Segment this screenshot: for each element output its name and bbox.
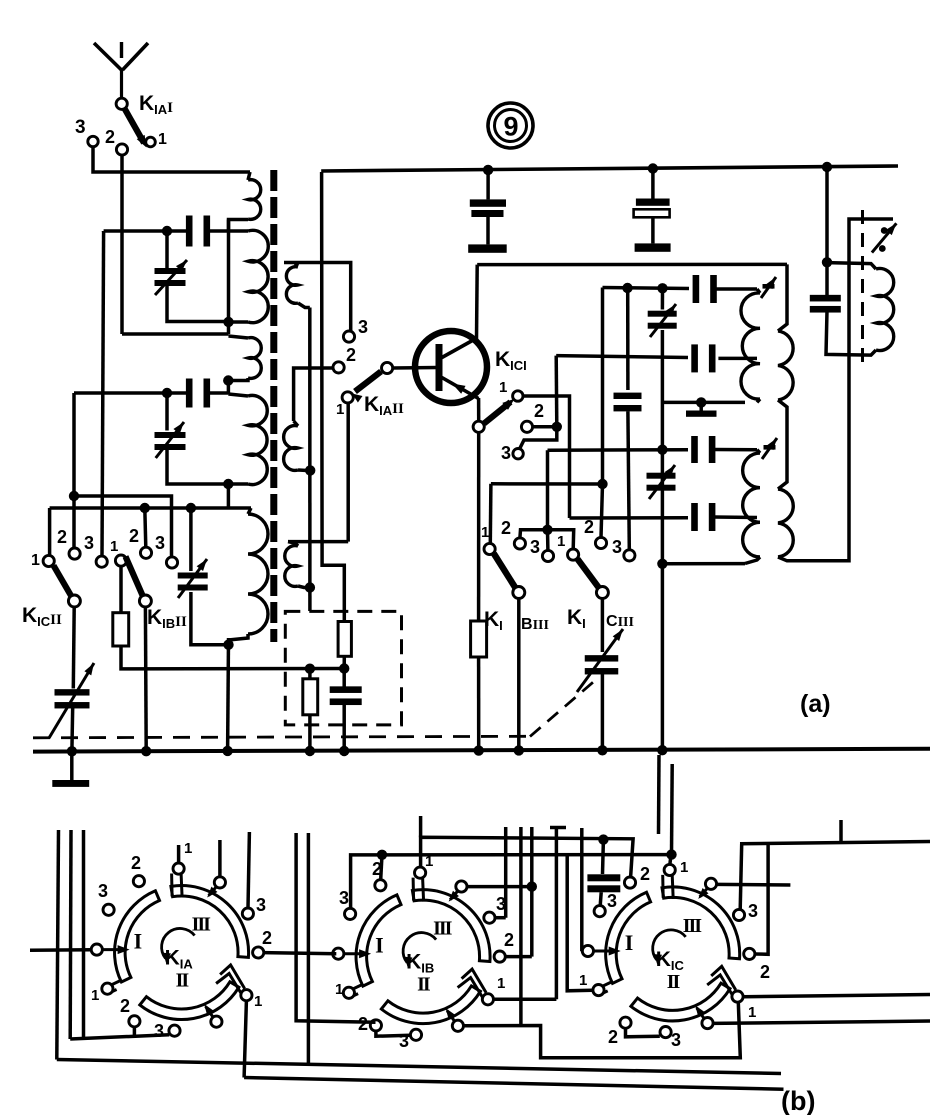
wire drop x308: [307, 833, 311, 1065]
svg-text:1: 1: [184, 840, 192, 857]
winding L2a: [286, 267, 298, 304]
rotary switch K1B wafer II: [381, 986, 480, 1024]
svg-text:III: III: [433, 918, 453, 940]
switch K1AI common contact: [116, 98, 127, 109]
switch K1CII contact 1: [43, 555, 54, 566]
wire V1 bottom: [167, 285, 229, 322]
node x602-y484: [597, 479, 607, 489]
K1A common contact: [91, 944, 102, 955]
svg-text:3: 3: [98, 881, 108, 901]
K1B contact 2 bottom: [370, 1020, 381, 1031]
rotary switch K1A wafer III: [171, 886, 249, 958]
wire K1BIII-2 up: [520, 530, 548, 538]
node C1-V1: [162, 226, 172, 236]
svg-text:2: 2: [608, 1027, 618, 1047]
switch K1CIII contact 3: [624, 550, 635, 561]
wire from y355 corner: [554, 356, 558, 427]
wire to K1BII-2: [145, 508, 146, 547]
K1B wafer III hook to top contact 1: [412, 878, 416, 901]
wire K1C 1lr to right: [743, 995, 930, 997]
node H2 K1B-2tl: [377, 850, 387, 860]
K1C contact 1 top: [664, 864, 675, 875]
wire L1e bottom: [226, 638, 230, 751]
label 9 in circle: [488, 103, 533, 148]
K1C contact 2 right: [744, 948, 755, 959]
winding L2c: [288, 542, 298, 546]
wire tank2 top tap: [548, 448, 689, 452]
wire C10 bottom: [826, 311, 876, 355]
bottom bus L2: [244, 1078, 783, 1090]
winding L3a: [757, 289, 760, 293]
svg-text:3: 3: [612, 537, 622, 557]
K1B contact 1 top: [415, 867, 426, 878]
K1B contact 3 top-left: [345, 908, 356, 919]
wire K1A 2r to K1B common: [264, 953, 336, 954]
capacitor C1: [186, 216, 193, 247]
svg-text:2: 2: [57, 527, 67, 547]
K1B wafer III wiper arrow circle: [456, 881, 467, 892]
wire V2 bottom: [167, 449, 228, 485]
svg-text:1: 1: [335, 981, 343, 998]
K1C common wiper arrow: [594, 950, 616, 953]
wire y496 across: [74, 496, 172, 557]
wire T1 primary link: [227, 220, 231, 335]
wire K1CIII common down: [601, 599, 605, 652]
K1C common contact: [582, 945, 593, 956]
K1A contact 2 top-left: [133, 876, 144, 887]
node K1B III arrow junction: [527, 881, 537, 891]
wire output tank top: [827, 263, 876, 269]
svg-text:9: 9: [503, 112, 518, 142]
node H2 K1C-1top: [666, 849, 676, 859]
svg-text:1: 1: [336, 401, 344, 418]
switch K1AI contact 1: [146, 137, 156, 147]
wire R1 bottom: [121, 646, 344, 669]
svg-text:(а): (а): [800, 690, 831, 718]
switch K1AI contact 3: [88, 136, 98, 146]
wire tank1 bottom: [662, 401, 745, 405]
K1A wafer II wiper arrow: [206, 1007, 213, 1017]
K1B contact 3 bottom: [410, 1029, 421, 1040]
wire L1c-L1d link: [227, 381, 231, 395]
wire K1CI-3 stair: [520, 427, 557, 449]
core L5: [861, 210, 864, 366]
wire collector bus y264: [477, 263, 787, 267]
winding L5 output: [876, 269, 894, 351]
node tap to K1BII-2: [140, 503, 150, 513]
svg-text:3: 3: [339, 888, 349, 908]
svg-text:3: 3: [155, 533, 165, 553]
svg-text:3: 3: [75, 117, 86, 138]
K1A wafer III wiper arrow: [209, 887, 217, 896]
K1C wafer III wiper arrow circle: [705, 878, 716, 889]
wire x658 drop: [657, 755, 661, 834]
switch K1CI wiper arm: [484, 402, 511, 424]
wire long vertical from rail: [322, 172, 345, 622]
rotary switch K1B wafer III: [412, 890, 490, 962]
bottom rail: [33, 749, 930, 752]
wire drop to K1A 3r: [248, 832, 249, 908]
wire output branch: [825, 167, 829, 262]
node V3 bottom tap: [223, 640, 233, 650]
K1A wafer II wiper arrow circle: [211, 1016, 222, 1027]
wire K1BIII-1 feed: [489, 484, 493, 544]
switch K1CI common: [473, 421, 484, 432]
switch K1BII common: [139, 595, 151, 607]
K1B contact 1 lower-right: [482, 994, 493, 1005]
resistor R2: [303, 679, 318, 715]
switch K1BII wiper arm: [126, 557, 144, 597]
capacitor C7: [691, 344, 698, 372]
top rail: [321, 166, 898, 171]
K1B wafer II wiper arrow circle: [452, 1020, 463, 1031]
wire V6 down: [601, 673, 605, 750]
svg-text:III: III: [192, 914, 212, 936]
K1A contact 3 top-left: [103, 904, 114, 915]
svg-text:3: 3: [748, 901, 758, 921]
node rail K1BII: [141, 746, 151, 756]
svg-text:1: 1: [499, 379, 507, 396]
wire drop x296: [296, 833, 375, 1022]
node rail R2: [305, 746, 315, 756]
variable capacitor V7: [55, 689, 90, 695]
svg-text:2: 2: [120, 996, 130, 1016]
svg-text:2: 2: [105, 127, 115, 147]
wire left bus 1: [57, 830, 59, 1060]
trimmer L3a: [763, 284, 775, 289]
svg-text:3: 3: [501, 443, 511, 463]
wire drop x567: [567, 855, 593, 991]
svg-text:1: 1: [158, 131, 167, 148]
resistor R3: [338, 622, 351, 657]
variable capacitor V3: [189, 508, 193, 571]
rotary switch K1C wafer III: [662, 887, 740, 959]
wire K1C 2r drop: [755, 844, 768, 955]
rotary switch K1A wafer I: [115, 891, 160, 982]
svg-text:CIII: CIII: [606, 613, 634, 630]
K1A wafer I hook to contact 1: [111, 980, 122, 985]
capacitor C10: [810, 295, 841, 302]
wire Cb bottom: [342, 705, 346, 751]
switch K1CIII wiper arm: [578, 559, 600, 588]
wire K1A 1top stub: [177, 845, 181, 863]
dashed box AGC filter: [285, 611, 401, 725]
switch K1BIII contact 3: [542, 550, 553, 561]
K1A contact 2 right: [253, 947, 264, 958]
winding L2b: [294, 421, 298, 426]
svg-text:1: 1: [31, 552, 40, 569]
node rail output: [822, 162, 832, 172]
wire K1AII-2 to L2b: [294, 368, 333, 421]
node y529 junction: [542, 525, 552, 535]
antenna: [94, 43, 122, 70]
wire C1 left: [104, 229, 189, 233]
node tank2 tap-V5: [657, 445, 667, 455]
svg-text:1: 1: [91, 987, 99, 1004]
wire C7 to coil: [718, 357, 757, 361]
capacitor C9: [691, 503, 698, 531]
node tank2 bottom: [657, 559, 667, 569]
wire L4b bottom to output: [778, 219, 893, 561]
wire C9 to coil: [714, 515, 757, 519]
K1C rotation arrow: [653, 930, 686, 960]
wire x602 vertical: [601, 288, 605, 485]
wire collector riser: [475, 265, 479, 339]
svg-text:1: 1: [557, 533, 565, 550]
svg-text:1: 1: [680, 859, 688, 876]
wire V7 to ground rail: [70, 707, 74, 752]
K1C contact 2 bottom: [620, 1017, 631, 1028]
chassis stub: [699, 402, 703, 411]
wire K1A 1lr to bus L2: [244, 1001, 246, 1078]
wire left bus 2: [68, 830, 72, 1039]
K1A contact 1 lower-right: [241, 990, 252, 1001]
svg-text:2: 2: [504, 930, 514, 950]
wire K1CII common down: [72, 607, 76, 689]
wire K1B 1top feed H1: [421, 837, 633, 877]
capacitor C6: [693, 275, 700, 303]
K1C contact 3 bottom: [660, 1027, 671, 1038]
wire contact3 to input bus: [93, 147, 250, 172]
wire secondary common: [308, 308, 312, 612]
resistor R1: [119, 566, 123, 613]
wire C3 down to K1CIII-3: [628, 411, 629, 550]
wire K1B 2r link: [505, 955, 531, 959]
K1A contact 1 top: [173, 863, 184, 874]
K1B common wiper arrow: [344, 952, 366, 955]
svg-text:1: 1: [497, 975, 505, 992]
rotary switch K1B wafer I: [356, 895, 401, 986]
K1B common contact: [333, 948, 344, 959]
wire K1BII common down: [144, 607, 148, 751]
wire T1 left column: [227, 484, 231, 508]
wire emitter to resistor: [477, 432, 481, 621]
K1C wafer III hook to top contact 1: [661, 875, 665, 898]
switch K1AII contact 1: [342, 392, 353, 403]
wire left bus 3: [82, 830, 86, 1039]
svg-text:2: 2: [584, 517, 594, 537]
switch K1CII wiper arm: [54, 566, 72, 597]
K1A wafer III hook to top contact 1: [170, 874, 174, 897]
svg-text:1: 1: [110, 538, 118, 555]
node winding L1b bottom: [223, 317, 233, 327]
node L1c bottom: [223, 375, 233, 385]
wire x602 to K1CIII-2: [601, 484, 603, 537]
svg-text:3: 3: [154, 1021, 164, 1041]
node rail K1CIII: [597, 745, 607, 755]
wire K1AI-2 to L1c: [122, 332, 229, 336]
wire K1C 1top feed: [670, 855, 671, 865]
switch K1CIII contact 1: [568, 549, 579, 560]
svg-text:(b): (b): [781, 1086, 815, 1115]
variable capacitor V2: [165, 393, 169, 431]
wire K1B 2b to 3b: [376, 1031, 410, 1036]
variable capacitor V1: [165, 231, 169, 269]
wire drop x520: [519, 827, 523, 1025]
K1C wafer II hook to contact 1: [711, 966, 736, 990]
wire C1 right: [208, 229, 229, 233]
switch K1CII contact 3: [96, 556, 107, 567]
wire left column x102: [102, 231, 106, 232]
wire K1B 3r link: [495, 916, 506, 920]
bottom bus L1: [57, 1060, 781, 1074]
variable capacitor V4: [661, 288, 665, 309]
node tank1 chassis tap: [696, 397, 706, 407]
node output tank top: [822, 257, 832, 267]
wire K1A bottom link: [70, 1035, 169, 1039]
winding L4b: [778, 489, 793, 557]
winding L1d: [228, 394, 248, 396]
wire x841 stub: [839, 820, 843, 843]
wire K1C 3r drop: [740, 844, 742, 910]
wire tank2 mid tap: [570, 516, 689, 520]
K1C contact 2 top-left: [624, 877, 635, 888]
ground: [70, 751, 74, 780]
svg-text:3: 3: [607, 891, 617, 911]
wire R4 bottom: [477, 657, 481, 751]
svg-text:3: 3: [671, 1030, 681, 1050]
K1B contact 3 right: [484, 912, 495, 923]
K1A contact 3 right: [242, 908, 253, 919]
wire C6 to coil: [714, 287, 757, 291]
K1A rotation arrow: [162, 928, 195, 958]
node rail T1: [222, 746, 232, 756]
wire K1A 2b to 3b: [133, 1027, 137, 1038]
switch K1BII contact 1: [115, 555, 126, 566]
wire H2 bus: [351, 855, 672, 910]
K1C contact 3 right: [733, 909, 744, 920]
wire K1CI-2: [533, 425, 557, 429]
capacitor C4 to chassis: [486, 170, 490, 200]
svg-text:3: 3: [84, 533, 94, 553]
wire y484 K1BIII: [491, 482, 603, 486]
switch K1BIII common: [513, 587, 525, 599]
switch K1CII common: [68, 595, 80, 607]
wire C8 to coil: [714, 448, 757, 452]
K1B wafer I hook to contact 1: [353, 984, 364, 989]
switch K1CI contact 3: [513, 449, 523, 459]
capacitor Cb AGC: [330, 686, 362, 693]
switch K1AII common: [382, 362, 393, 373]
resistor R4: [471, 621, 487, 657]
K1B contact 1 lower-left: [343, 987, 354, 998]
winding L3b: [778, 264, 787, 331]
wire L1a tap: [229, 220, 249, 232]
K1C wafer I hook to contact 1: [602, 981, 613, 986]
node left branch: [69, 491, 79, 501]
wire K1C 2b to 3b: [626, 1028, 660, 1036]
wire contact2 down: [120, 155, 124, 334]
wire corner x547 down: [546, 450, 550, 530]
trimmer output coil: [881, 227, 888, 234]
switch K1BIII contact 1: [484, 543, 495, 554]
K1B wafer III wiper arrow: [450, 891, 458, 900]
wire K1BIII common down: [517, 599, 521, 751]
wire base lead: [393, 366, 438, 370]
wire dot to K1BIII-3: [546, 530, 550, 551]
K1A contact 3 bottom: [169, 1025, 180, 1036]
wire K1B II arrow to K1C 1lr: [464, 1002, 741, 1058]
cluster tie: [550, 826, 566, 830]
svg-text:3: 3: [256, 895, 266, 915]
wire tank1 mid tap: [556, 356, 688, 358]
node S2 bottom: [305, 465, 315, 475]
winding L1e top tap: [50, 506, 251, 510]
svg-text:2: 2: [129, 526, 139, 546]
node rail emitter: [474, 745, 484, 755]
node H1 cap branch: [598, 834, 608, 844]
K1C contact 1 lower-right: [732, 991, 743, 1002]
K1C contact 3 top-left: [594, 906, 605, 917]
K1C wafer III wiper arrow: [700, 888, 708, 897]
svg-text:3: 3: [530, 537, 540, 557]
svg-text:2: 2: [640, 864, 650, 884]
switch K1CIII contact 2: [595, 537, 606, 548]
svg-text:2: 2: [501, 518, 511, 538]
wire R2 bottom: [308, 715, 312, 751]
wire C2 left: [74, 391, 188, 395]
K1C contact 1 lower-left: [593, 985, 604, 996]
wire drop x556: [555, 827, 559, 999]
winding L2c top tap: [288, 540, 348, 544]
K1B rotation arrow: [403, 933, 436, 963]
switch K1BII contact 3: [166, 557, 177, 568]
node tap to V3: [186, 503, 196, 513]
node R2 top: [305, 664, 315, 674]
capacitor C5 electrolytic to chassis: [651, 169, 655, 199]
switch K1CII contact 2: [69, 548, 80, 559]
wire V4-chain rail node: [657, 745, 667, 755]
svg-text:2: 2: [262, 928, 272, 948]
wire K1C III arrow link: [717, 883, 791, 887]
rotary switch K1C wafer I: [606, 892, 651, 983]
wire tap corner to K1CII-1: [48, 508, 52, 556]
wire x676 up: [670, 764, 674, 855]
trimmer L4a: [764, 445, 776, 450]
winding L2a top tap: [284, 263, 351, 332]
switch K1AI wiper arm: [125, 109, 145, 144]
svg-text:3: 3: [358, 317, 368, 337]
switch K1BIII wiper arm: [494, 554, 516, 589]
K1C wafer II wiper arrow: [697, 1008, 704, 1018]
capacitor Cb1 in K1C-3 wire: [601, 840, 605, 874]
dashed gang line: [33, 736, 528, 738]
K1A common wiper arrow: [103, 948, 125, 951]
switch K1CIII common: [596, 587, 608, 599]
svg-text:III: III: [683, 915, 703, 937]
node rail Cb: [339, 746, 349, 756]
wire drop x531: [530, 827, 534, 957]
switch K1AI contact 2: [116, 144, 127, 155]
winding L4a: [757, 450, 760, 453]
wire tank1 top tap: [603, 288, 690, 289]
wire emitter down: [477, 398, 481, 421]
transformer T1 core: [270, 170, 277, 642]
switch K1CI contact 2: [521, 421, 532, 432]
winding L1b: [248, 230, 268, 322]
node tap V4: [657, 283, 667, 293]
capacitor C3: [626, 288, 630, 390]
wire V4 down: [661, 330, 665, 750]
node S3 bottom: [305, 582, 315, 592]
switch K1AII contact 2: [333, 362, 344, 373]
K1A contact 1 lower-left: [102, 983, 113, 994]
node winding L1d bottom: [223, 479, 233, 489]
node ground rail left: [67, 746, 77, 756]
node R3-C bottom: [339, 663, 349, 673]
wire V3 bottom: [191, 592, 229, 645]
wire K1A III-arrow stub: [218, 840, 222, 876]
